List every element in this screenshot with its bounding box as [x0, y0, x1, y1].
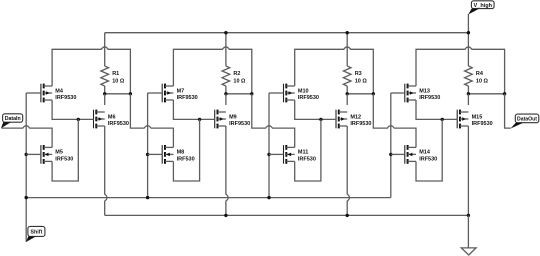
svg-text:IRF9530: IRF9530 [472, 121, 493, 127]
wire M13 gate [391, 92, 405, 94]
svg-text:10 Ω: 10 Ω [476, 79, 489, 85]
node DataIn port [3, 114, 23, 122]
wire DataIn to M5 drain [2, 126, 53, 148]
svg-text:DataIn: DataIn [5, 116, 21, 122]
svg-text:Shift: Shift [30, 230, 42, 236]
svg-text:10 Ω: 10 Ω [233, 79, 246, 85]
svg-text:IRF530: IRF530 [298, 157, 316, 163]
junction [224, 31, 227, 34]
wire M14 source loop [416, 119, 442, 181]
junction [77, 118, 80, 121]
junction [129, 92, 132, 95]
svg-text:IRF9530: IRF9530 [177, 95, 198, 101]
wire M14 gate [391, 153, 405, 155]
wire shift riser [147, 93, 149, 198]
wire ground stem [467, 215, 469, 247]
wire shift riser [268, 93, 270, 198]
wire Shift gate bus [26, 197, 391, 199]
node under R4 [468, 93, 504, 95]
junction [25, 196, 28, 199]
wire M4 drain to node under R1 [52, 47, 130, 94]
svg-text:IRF9530: IRF9530 [419, 95, 440, 101]
wire M4 source to M6 gate [52, 100, 93, 119]
svg-text:M14: M14 [419, 150, 431, 156]
svg-text:IRF9530: IRF9530 [55, 95, 76, 101]
svg-text:M4: M4 [55, 88, 64, 94]
wire M8 source loop [173, 119, 199, 181]
svg-text:M8: M8 [177, 150, 185, 156]
wire R3 bottom lead [346, 86, 348, 94]
wire R4 top lead [467, 14, 469, 66]
junction [503, 92, 506, 95]
junction [224, 92, 227, 95]
svg-text:IRF9530: IRF9530 [350, 121, 371, 127]
wire shift riser [25, 93, 27, 242]
wire R3 top lead [346, 33, 348, 66]
junction [224, 214, 227, 217]
wire V_high top supply rail [105, 32, 469, 34]
svg-text:IRF530: IRF530 [55, 157, 73, 163]
transistor M10 IRF9530 [283, 84, 285, 103]
junction [389, 153, 392, 156]
junction [467, 92, 470, 95]
resistor R3 10 Ohm [343, 66, 351, 86]
node Shift port [28, 226, 45, 236]
svg-text:M6: M6 [108, 114, 116, 120]
transistor M15 IRF9530 [456, 110, 458, 129]
svg-text:M11: M11 [298, 150, 308, 156]
wire M10 source to M12 gate [295, 100, 336, 119]
svg-text:10 Ω: 10 Ω [355, 79, 368, 85]
junction [441, 118, 444, 121]
wire M7 drain to node under R2 [173, 47, 251, 94]
node DataOut port [515, 114, 539, 123]
wire stage 3 input to M14 drain [373, 94, 416, 148]
junction [146, 196, 149, 199]
resistor R1 10 Ohm [101, 66, 109, 86]
wire DataOut [505, 94, 511, 128]
wire M10 drain to node under R3 [295, 47, 374, 94]
node V_high supply port [471, 1, 494, 9]
wire node to M15 drain [467, 94, 469, 105]
svg-text:R1: R1 [112, 71, 119, 77]
wire node to M6 drain [104, 94, 106, 105]
svg-text:M13: M13 [419, 88, 430, 94]
wire R1 top lead [104, 33, 106, 66]
junction [467, 214, 470, 217]
wire R4 bottom lead [467, 86, 469, 94]
svg-text:M10: M10 [298, 88, 309, 94]
junction [346, 31, 349, 34]
wire R2 bottom lead [225, 86, 227, 94]
svg-text:M9: M9 [229, 114, 237, 120]
svg-text:IRF530: IRF530 [419, 157, 437, 163]
transistor M12 IRF9530 [335, 110, 337, 129]
svg-text:M7: M7 [177, 88, 185, 94]
wire shift riser [390, 93, 392, 198]
wire M12 source to bottom rail [347, 126, 349, 215]
svg-text:R3: R3 [355, 71, 362, 77]
transistor M8 IRF530 [161, 145, 163, 164]
svg-text:10 Ω: 10 Ω [112, 79, 125, 85]
node under R1 [105, 93, 131, 95]
wire stage 2 input to M11 drain [252, 94, 295, 148]
wire M15 source to bottom rail [467, 126, 469, 215]
node under R3 [347, 93, 373, 95]
junction [250, 92, 253, 95]
ground [461, 248, 476, 255]
resistor R2 10 Ohm [222, 66, 230, 86]
svg-text:M12: M12 [350, 114, 361, 120]
transistor M5 IRF530 [40, 145, 42, 164]
svg-text:IRF9530: IRF9530 [298, 95, 319, 101]
wire M7 source to M9 gate [173, 100, 214, 119]
junction [103, 92, 106, 95]
transistor M11 IRF530 [283, 145, 285, 164]
svg-text:IRF9530: IRF9530 [229, 121, 250, 127]
transistor M6 IRF9530 [93, 110, 95, 129]
wire stage 1 input to M8 drain [130, 94, 173, 148]
resistor R4 10 Ohm [465, 66, 473, 86]
junction [267, 196, 270, 199]
svg-text:DataOut: DataOut [517, 117, 537, 123]
transistor M14 IRF530 [404, 145, 406, 164]
svg-text:M5: M5 [55, 150, 63, 156]
transistor M4 IRF9530 [40, 84, 42, 103]
wire M4 gate [26, 92, 41, 94]
wire M5 gate [26, 153, 41, 155]
wire M13 drain to node under R4 [416, 47, 505, 94]
node under R2 [226, 93, 252, 95]
svg-text:IRF9530: IRF9530 [108, 121, 129, 127]
junction [198, 118, 201, 121]
wire node to M9 drain [225, 94, 227, 105]
wire node to M12 drain [346, 94, 348, 105]
wire R2 top lead [225, 33, 227, 66]
junction [146, 153, 149, 156]
junction [319, 118, 322, 121]
svg-text:IRF530: IRF530 [177, 157, 195, 163]
wire M8 gate [148, 153, 163, 155]
wire M10 gate [269, 92, 284, 94]
wire M6 source to bottom rail [105, 126, 107, 215]
svg-text:M15: M15 [472, 114, 483, 120]
junction [372, 92, 375, 95]
junction [25, 153, 28, 156]
transistor M9 IRF9530 [214, 110, 216, 129]
transistor M7 IRF9530 [161, 84, 163, 103]
junction [346, 92, 349, 95]
wire bottom source rail [105, 214, 469, 216]
wire M13 source to M15 gate [416, 100, 457, 119]
junction [467, 31, 470, 34]
transistor M13 IRF9530 [404, 84, 406, 103]
junction [267, 153, 270, 156]
svg-text:R4: R4 [476, 71, 484, 77]
wire M5 source loop [52, 119, 78, 181]
wire R1 bottom lead [104, 86, 106, 94]
wire M7 gate [148, 92, 163, 94]
junction [346, 214, 349, 217]
svg-text:V_high: V_high [474, 3, 493, 9]
wire M11 gate [269, 153, 284, 155]
svg-text:R2: R2 [233, 71, 240, 77]
wire M9 source to bottom rail [226, 126, 228, 215]
wire M11 source loop [295, 119, 321, 181]
